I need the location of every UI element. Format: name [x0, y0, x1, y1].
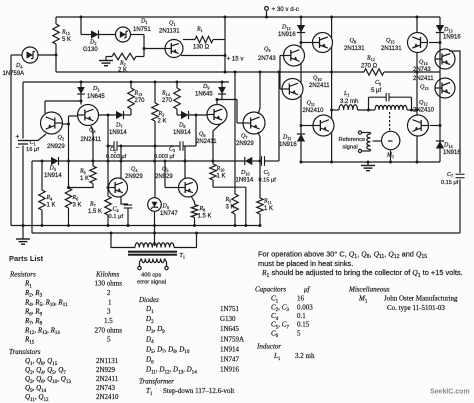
svg-text:−: −	[16, 146, 20, 152]
diode D9 1N645	[221, 82, 223, 87]
svg-text:2N2410: 2N2410	[303, 108, 325, 114]
svg-text:0.1 μf: 0.1 μf	[109, 214, 124, 220]
svg-text:C7: C7	[447, 172, 453, 179]
diode D1 1N751	[116, 27, 131, 42]
svg-text:1 K: 1 K	[47, 203, 56, 209]
svg-text:D12: D12	[281, 25, 291, 32]
wire Q2 emitter to C1	[23, 134, 46, 141]
svg-text:Inductor: Inductor	[256, 343, 281, 351]
svg-text:D6: D6	[162, 204, 169, 211]
svg-text:D1: D1	[140, 19, 147, 26]
svg-text:1N759A: 1N759A	[220, 335, 244, 343]
svg-text:1N914: 1N914	[109, 130, 127, 136]
svg-text:Transformer: Transformer	[139, 378, 174, 386]
svg-text:400 cps: 400 cps	[141, 273, 161, 279]
svg-text:Q6: Q6	[199, 132, 205, 139]
svg-text:D3: D3	[92, 86, 99, 93]
wire Q9 Q10 base net	[280, 55, 284, 57]
transistor Q9 2N743	[284, 45, 305, 66]
wire Q4 emitter to C4	[121, 196, 128, 204]
reference signal coil	[358, 131, 361, 134]
svg-text:C4: C4	[113, 207, 120, 214]
svg-text:Parts List: Parts List	[9, 254, 44, 263]
svg-text:1.5: 1.5	[104, 317, 113, 325]
motor M1	[382, 131, 400, 149]
wire transformer center tap	[154, 212, 156, 246]
svg-text:16 μf: 16 μf	[26, 147, 39, 153]
wire D2-D1 branch	[80, 17, 82, 35]
resistor R4 1K	[41, 161, 43, 190]
transformer T1 primary	[135, 243, 174, 248]
svg-text:Q11: Q11	[307, 101, 315, 108]
svg-text:2N929: 2N929	[47, 144, 65, 150]
svg-text:Q15: Q15	[386, 38, 395, 45]
svg-text:2N1131: 2N1131	[344, 46, 365, 52]
transistor Q2 2N929	[41, 112, 63, 134]
svg-text:R10: R10	[216, 166, 225, 173]
transistor Q5 2N929	[179, 178, 198, 197]
transistor Q6 2N2411	[207, 105, 227, 125]
svg-text:1N751: 1N751	[133, 27, 151, 33]
svg-text:270 ohms: 270 ohms	[95, 326, 123, 334]
wire Q15 base stub	[429, 42, 440, 44]
svg-text:Q5: Q5	[162, 167, 168, 174]
svg-text:D9: D9	[202, 84, 209, 91]
resistor R10 1K	[210, 164, 216, 180]
svg-text:2N929: 2N929	[155, 174, 173, 180]
svg-text:Step-down 117–12.6-volt: Step-down 117–12.6-volt	[163, 387, 234, 395]
svg-text:1N645: 1N645	[220, 325, 240, 333]
svg-text:1N914: 1N914	[44, 173, 62, 179]
wire Q8 base stub	[301, 42, 313, 44]
wire transformer right leg	[174, 233, 197, 248]
svg-text:R15: R15	[61, 30, 70, 37]
svg-text:130 ohms: 130 ohms	[95, 280, 123, 288]
svg-text:R7: R7	[89, 202, 96, 209]
ground below R2	[105, 57, 107, 61]
svg-text:1 K: 1 K	[80, 176, 89, 182]
svg-text:16: 16	[297, 295, 305, 303]
svg-text:2N743: 2N743	[96, 384, 116, 392]
svg-text:R8: R8	[199, 206, 206, 213]
wire bottom rail1	[11, 225, 261, 227]
svg-text:R4: R4	[46, 195, 54, 202]
svg-text:R12: R12	[366, 56, 375, 63]
capacitor C3 0.003uF	[179, 141, 181, 151]
svg-text:R14: R14	[161, 91, 171, 98]
svg-text:Q10: Q10	[313, 76, 322, 83]
diode D2 G130	[91, 30, 99, 38]
svg-text:Q12: Q12	[419, 100, 428, 107]
diode D10 1N914	[245, 157, 253, 165]
diode D14 1N916	[436, 141, 444, 149]
svg-text:270: 270	[135, 98, 146, 104]
svg-text:2N1131: 2N1131	[381, 46, 402, 52]
resistor R13 270	[130, 82, 132, 88]
capacitor C5 0.15uF	[261, 156, 263, 166]
svg-text:5 K: 5 K	[62, 37, 71, 43]
svg-text:0.1: 0.1	[297, 312, 306, 320]
wire bridge Q8-Q11 vertical	[331, 17, 333, 162]
svg-text:1N916: 1N916	[443, 150, 461, 156]
svg-text:John Oster Manufacturing: John Oster Manufacturing	[384, 295, 458, 303]
wire Q2 base net	[62, 123, 69, 125]
svg-text:3.2 mh: 3.2 mh	[295, 352, 315, 360]
node top rail junctions	[80, 16, 83, 19]
svg-text:+ 30 v d-c: + 30 v d-c	[272, 6, 299, 13]
svg-text:2N2411: 2N2411	[81, 137, 102, 143]
transistor Q1 2N1131	[165, 40, 183, 58]
wire bridge D13-D14 vertical	[439, 17, 441, 162]
wire bridge D12-D11 vertical	[300, 17, 302, 162]
ground bottom left	[16, 238, 30, 240]
motor control winding	[358, 109, 376, 111]
svg-text:1: 1	[108, 298, 112, 306]
wire Q5 base	[164, 161, 166, 188]
svg-text:Kilohms: Kilohms	[95, 271, 120, 279]
wire Q12 base stub	[430, 125, 440, 127]
svg-text:0.15 μf: 0.15 μf	[441, 180, 459, 186]
wire bridge bottom rail	[301, 161, 440, 163]
resistor R1 130ohm	[195, 36, 213, 42]
diode D13 1N916	[436, 25, 444, 33]
svg-text:1N759A: 1N759A	[3, 71, 25, 77]
svg-text:D8: D8	[178, 123, 185, 130]
svg-text:error signal: error signal	[137, 280, 166, 286]
svg-text:1.5 K: 1.5 K	[198, 213, 212, 219]
svg-text:D11: D11	[282, 135, 291, 142]
svg-text:2N929: 2N929	[96, 366, 116, 374]
wire bridge Q15-Q12 vertical	[416, 17, 418, 162]
svg-text:2N743: 2N743	[413, 67, 431, 73]
diode D3 1N645	[80, 82, 82, 87]
svg-text:2N2410: 2N2410	[96, 393, 119, 401]
diode D11 1N916	[297, 134, 305, 142]
diode D12 1N916	[297, 25, 305, 33]
svg-text:2N2411: 2N2411	[309, 83, 330, 89]
transistor Q14 2N743	[435, 49, 455, 69]
capacitor C1 16uF	[18, 140, 28, 142]
svg-text:Q8: Q8	[350, 38, 356, 45]
svg-text:5: 5	[297, 329, 301, 337]
wire C2 C3 coupling line	[108, 145, 114, 147]
wire D1 to Q1 base	[143, 35, 145, 57]
wire R1 to rail	[183, 39, 195, 41]
wire Q11 base stub	[301, 125, 314, 127]
svg-text:1N914: 1N914	[220, 345, 240, 353]
transistor Q7 2N929	[243, 112, 265, 134]
svg-text:2N2411: 2N2411	[413, 76, 434, 82]
svg-text:0.15 μf: 0.15 μf	[259, 178, 277, 184]
svg-text:Co. type 11-5101-03: Co. type 11-5101-03	[387, 304, 445, 312]
wire Q6 to Q7 base	[217, 99, 237, 101]
svg-text:Q13: Q13	[420, 85, 429, 92]
resistor R7 1.5K	[105, 196, 111, 215]
svg-text:2N2411: 2N2411	[96, 375, 119, 383]
svg-text:L1: L1	[343, 91, 349, 98]
wire D9 to Q6	[217, 99, 222, 101]
transistor Q13 2N2411	[435, 78, 455, 98]
transistor Q12 2N2410	[408, 115, 429, 136]
wire Q5 collector	[184, 146, 186, 179]
svg-text:1N747: 1N747	[160, 211, 178, 217]
transformer T1 secondary	[142, 259, 165, 263]
svg-text:2N2410: 2N2410	[413, 108, 435, 114]
svg-text:2N743: 2N743	[258, 56, 276, 62]
svg-text:G130: G130	[220, 315, 236, 323]
svg-text:270 Ω: 270 Ω	[361, 63, 378, 69]
svg-text:Diodes: Diodes	[138, 296, 159, 304]
svg-text:+: +	[16, 134, 20, 141]
svg-text:C2: C2	[110, 147, 116, 154]
wire D8 to C3	[195, 115, 197, 146]
svg-text:D10: D10	[240, 170, 250, 177]
svg-text:SeekIC.com: SeekIC.com	[430, 389, 470, 396]
svg-text:D4: D4	[15, 63, 23, 70]
inductor L1 3.2mh	[332, 109, 339, 111]
transistor Q11 2N2410	[313, 115, 334, 136]
svg-text:R1: R1	[196, 27, 203, 34]
svg-text:D13: D13	[443, 27, 453, 34]
svg-text:5 μf: 5 μf	[371, 88, 381, 94]
diode D8 1N914	[177, 114, 181, 116]
wire Q7 emitter	[258, 132, 260, 161]
svg-text:R3: R3	[158, 111, 165, 118]
svg-text:1 K: 1 K	[264, 206, 273, 212]
svg-text:1N916: 1N916	[279, 142, 297, 148]
wire Q4 collector	[120, 146, 122, 179]
svg-text:2N2411: 2N2411	[196, 139, 217, 145]
wire R15 branch	[55, 17, 57, 24]
diode D5 1N914	[51, 157, 59, 165]
wire bottom rail2	[32, 232, 460, 234]
svg-text:D7: D7	[115, 123, 122, 130]
svg-text:Q1: Q1	[169, 21, 175, 28]
svg-text:1N916: 1N916	[278, 32, 296, 38]
svg-text:C6: C6	[375, 80, 381, 87]
svg-text:D2: D2	[89, 40, 96, 47]
svg-text:2N1131: 2N1131	[159, 29, 180, 35]
svg-text:3 K: 3 K	[73, 203, 82, 209]
transformer T1 core	[128, 251, 177, 253]
svg-text:signal: signal	[343, 145, 358, 151]
resistor R8 1.5K	[191, 205, 197, 218]
svg-text:1.5 K: 1.5 K	[88, 209, 102, 215]
svg-text:1N645: 1N645	[195, 92, 213, 98]
capacitor C7 0.15uF	[456, 173, 465, 175]
ground bridge	[367, 162, 369, 166]
svg-text:1N747: 1N747	[220, 356, 240, 364]
wire M1 to bottom rail	[390, 151, 392, 163]
svg-text:G130: G130	[83, 47, 98, 53]
svg-text:1N916: 1N916	[220, 366, 240, 374]
wire Q6 emitter to R10	[213, 124, 221, 162]
svg-text:3 K: 3 K	[226, 205, 235, 211]
svg-text:+ 15 v: + 15 v	[227, 55, 245, 62]
svg-text:T1: T1	[180, 253, 185, 260]
svg-text:Q14: Q14	[419, 60, 428, 67]
svg-text:1 K: 1 K	[217, 174, 226, 180]
capacitor C4 0.1uF	[124, 204, 133, 206]
svg-text:270: 270	[162, 98, 173, 104]
wire Q3 emitter R5	[91, 126, 93, 166]
resistor R6 3K	[65, 188, 71, 208]
wire Q2 collector	[44, 101, 46, 113]
wire top +30V rail	[56, 16, 440, 18]
wire Q5 emitter to R8	[191, 196, 195, 205]
svg-text:Miscellaneous: Miscellaneous	[348, 286, 390, 294]
wire right edge vertical with C7	[449, 51, 460, 173]
resistor R3 2K	[154, 82, 156, 103]
svg-text:Q7: Q7	[241, 134, 247, 141]
wire transformer left leg	[111, 233, 135, 248]
transistor Q3 2N2411	[78, 105, 99, 126]
svg-text:1N645: 1N645	[87, 94, 105, 100]
svg-text:Reference: Reference	[339, 137, 366, 143]
diode D6 1N747 zener	[148, 198, 162, 212]
resistor R14 270	[176, 82, 178, 88]
resistor R15 5K	[53, 24, 59, 44]
svg-text:Capacitors: Capacitors	[255, 286, 286, 294]
resistor R2 2K	[106, 56, 112, 58]
wire C1 branch	[22, 82, 24, 139]
svg-text:3: 3	[107, 308, 111, 316]
svg-text:R5: R5	[79, 169, 86, 176]
transistor Q8 2N1131	[313, 33, 333, 53]
svg-text:R6: R6	[72, 195, 79, 202]
capacitor C2 0.003uF	[113, 141, 115, 151]
svg-text:Q4: Q4	[131, 167, 138, 174]
svg-text:0.15: 0.15	[297, 321, 310, 329]
wire rail Q oscillator supply	[23, 81, 229, 83]
resistor R9 3K	[234, 72, 236, 194]
resistor R12 270ohm	[364, 69, 384, 75]
svg-text:Transistors: Transistors	[9, 348, 41, 356]
svg-text:2N929: 2N929	[236, 141, 254, 147]
svg-text:0.003 μf: 0.003 μf	[106, 154, 127, 160]
svg-text:2N929: 2N929	[125, 174, 143, 180]
svg-text:2: 2	[107, 289, 111, 297]
svg-text:0.003: 0.003	[297, 303, 313, 311]
svg-text:1N914: 1N914	[236, 177, 254, 183]
svg-text:R2: R2	[119, 61, 126, 68]
resistor R11 1K	[259, 161, 261, 198]
svg-text:1N914: 1N914	[173, 130, 191, 136]
svg-text:1N916: 1N916	[443, 35, 461, 41]
svg-text:5: 5	[107, 336, 111, 344]
wire D5 feedback line	[32, 160, 51, 162]
terminal +30 v dc	[266, 10, 268, 17]
svg-text:C3: C3	[169, 146, 175, 153]
svg-text:R9: R9	[225, 197, 232, 204]
transistor Q15 2N1131	[408, 33, 428, 53]
wire +15v from Q1	[181, 55, 225, 57]
diode D7 1N914	[116, 111, 124, 119]
transistor Q10 2N2411	[282, 79, 303, 100]
wire x108 vertical D7-R7	[107, 115, 109, 196]
wire Q7 collector	[258, 72, 260, 114]
resistor R5 1K	[90, 166, 96, 184]
svg-text:1N751: 1N751	[220, 305, 240, 313]
svg-text:R11: R11	[263, 199, 272, 206]
svg-text:Resistors: Resistors	[9, 271, 36, 279]
svg-text:3.2 mh: 3.2 mh	[340, 99, 358, 105]
capacitor C6 5uF	[368, 97, 370, 110]
svg-text:Q9: Q9	[264, 47, 270, 54]
diode D4 1N759A	[22, 47, 38, 63]
svg-text:2 K: 2 K	[158, 119, 167, 125]
svg-text:C5: C5	[264, 170, 270, 177]
wire D4 row	[11, 54, 22, 56]
svg-text:D14: D14	[443, 143, 453, 150]
svg-text:D5: D5	[49, 166, 56, 173]
svg-text:130 Ω: 130 Ω	[193, 45, 210, 51]
svg-text:0.003 μf: 0.003 μf	[154, 154, 175, 160]
wire left feedback vertical	[10, 55, 12, 226]
svg-text:2N1131: 2N1131	[96, 357, 119, 365]
transistor Q4 2N929	[109, 178, 128, 197]
svg-text:R13: R13	[134, 91, 143, 98]
svg-text:must be placed in heat sinks.: must be placed in heat sinks.	[258, 259, 353, 268]
svg-text:Q2: Q2	[58, 135, 64, 142]
wire dashed to motor	[389, 112, 391, 131]
wire Q3 to D7 R13	[99, 114, 117, 116]
wire rail P +15	[56, 71, 364, 73]
